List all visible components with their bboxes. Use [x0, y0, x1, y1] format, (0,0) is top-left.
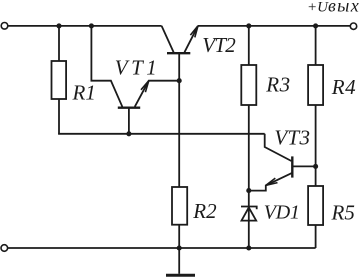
svg-text:VT2: VT2: [202, 33, 236, 57]
svg-text:VD1: VD1: [264, 202, 300, 224]
svg-text:VT1: VT1: [115, 55, 161, 79]
svg-text:R4: R4: [331, 75, 356, 99]
svg-text:R1: R1: [72, 80, 96, 104]
svg-text:VT3: VT3: [274, 126, 310, 150]
svg-text:R5: R5: [331, 200, 355, 224]
svg-text:+Uвых: +Uвых: [307, 0, 360, 16]
svg-text:R2: R2: [192, 199, 217, 223]
svg-text:R3: R3: [265, 73, 290, 97]
